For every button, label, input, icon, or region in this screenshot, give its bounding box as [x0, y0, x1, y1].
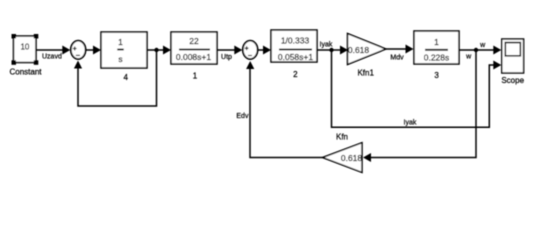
svg-text:4: 4: [123, 73, 128, 82]
svg-text:Utp: Utp: [221, 54, 232, 61]
svg-text:Kfn1: Kfn1: [357, 69, 374, 78]
gain Kfn1 (0.618): [348, 34, 387, 78]
svg-text:22: 22: [189, 36, 199, 46]
svg-text:Kfn: Kfn: [336, 133, 348, 142]
svg-text:0.228s: 0.228s: [424, 52, 450, 62]
transfer-function block 2 (1/0.333 / 0.058s+1): [271, 30, 317, 79]
wire Kfn output to Sum2 minus input (net Edv): [246, 61, 322, 158]
svg-text:1: 1: [193, 72, 198, 81]
svg-text:10: 10: [20, 42, 29, 51]
sum junction Sum2 (+ -): [243, 41, 258, 59]
svg-text:0.058s+1: 0.058s+1: [278, 52, 313, 62]
svg-text:0.618: 0.618: [341, 153, 363, 163]
wire w tap down to gain Kfn input: [363, 50, 476, 162]
gain Kfn (0.618, feedback, points left): [323, 133, 363, 173]
transfer-function block 4 (integrator 1/s): [101, 32, 147, 82]
junction node after block 4: [154, 48, 158, 52]
svg-text:w: w: [479, 42, 486, 49]
svg-text:Uzavd: Uzavd: [42, 54, 62, 61]
svg-text:Iyak: Iyak: [404, 120, 417, 127]
svg-text:s: s: [118, 54, 122, 64]
wire block 1 to Sum2: [217, 46, 242, 55]
wire feedback from block 4 output to Sum1 minus input: [74, 50, 157, 106]
scope block Scope: [501, 39, 524, 85]
svg-text:1/0.333: 1/0.333: [281, 35, 310, 45]
svg-text:3: 3: [434, 71, 439, 80]
sum junction Sum1 (+ -): [71, 41, 86, 59]
wire Constant to Sum1: [36, 46, 70, 55]
transfer-function block 1 (22 / 0.008s+1): [171, 32, 217, 81]
svg-text:2: 2: [293, 70, 298, 79]
wire Sum2 to block 2: [258, 46, 271, 55]
svg-text:Constant: Constant: [9, 68, 42, 77]
svg-text:w: w: [465, 54, 472, 61]
svg-text:Scope: Scope: [501, 76, 524, 85]
svg-text:Iyak: Iyak: [320, 42, 333, 49]
wire Sum1 to block 4: [86, 46, 101, 55]
transfer-function block 3 (1 / 0.228s): [414, 31, 459, 80]
svg-text:1: 1: [118, 37, 123, 47]
constant block "Constant" value 10 (selected, with corner handles): [9, 34, 42, 77]
svg-text:1: 1: [434, 37, 439, 47]
wire block 4 to block 1: [147, 46, 171, 55]
svg-text:Edv: Edv: [236, 113, 249, 120]
junction node w tap: [474, 48, 478, 52]
wire block 2 to gain Kfn1: [317, 46, 348, 55]
junction node Iyak tap: [329, 48, 333, 52]
wire block 3 to Scope input 1 (net w): [459, 46, 501, 55]
svg-text:Mdv: Mdv: [390, 54, 404, 61]
wire Kfn1 to block 3: [386, 45, 414, 54]
wire Iyak feedforward to Scope input 2: [332, 50, 502, 127]
svg-text:0.618: 0.618: [348, 45, 370, 55]
svg-text:0.008s+1: 0.008s+1: [176, 52, 211, 62]
